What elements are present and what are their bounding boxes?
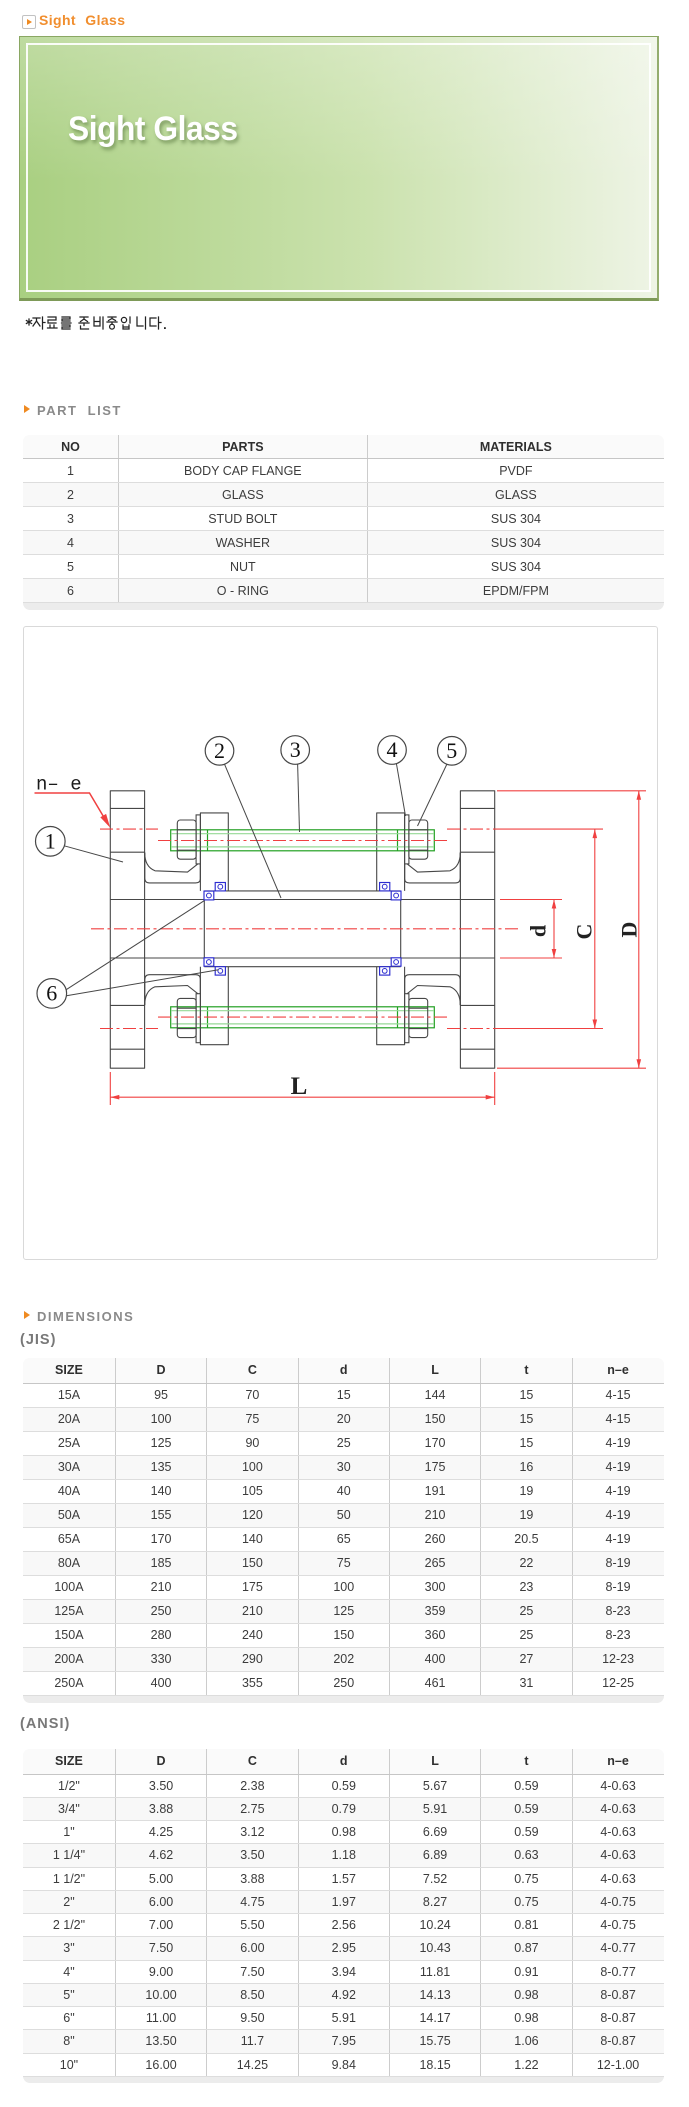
hub recess top-left bbox=[145, 852, 201, 882]
svg-text:6: 6 bbox=[46, 980, 57, 1005]
hub recess top-right bbox=[405, 852, 461, 882]
inner clamp flange bottom-right bbox=[377, 966, 405, 1044]
washer bottom-left bbox=[196, 993, 200, 1042]
nut bottom-left bbox=[177, 998, 196, 1037]
svg-text:3: 3 bbox=[290, 737, 301, 762]
n-e label and arrow bbox=[35, 773, 111, 827]
DIMENSIONS heading bbox=[24, 1311, 30, 1319]
inner clamp flange top-left bbox=[200, 812, 228, 890]
technical drawing box bbox=[23, 626, 658, 1260]
washer 4 top-left bbox=[196, 814, 200, 863]
hangul da bbox=[150, 317, 161, 329]
flange hole center line bottom-right (C extension) bbox=[447, 1027, 502, 1029]
svg-text:d: d bbox=[526, 924, 551, 936]
svg-text:D: D bbox=[617, 921, 642, 937]
balloon 5 bbox=[418, 736, 467, 826]
inner clamp flange bottom-left bbox=[200, 966, 228, 1044]
nut 5 top-right bbox=[409, 820, 428, 859]
washer bottom-right bbox=[405, 993, 409, 1042]
note asterisk bbox=[26, 319, 31, 325]
hangul ip bbox=[121, 317, 130, 329]
hub recess bottom-right bbox=[405, 974, 461, 1004]
hangul ni bbox=[137, 317, 146, 329]
balloon 4 bbox=[378, 735, 407, 815]
hub recess bottom-left bbox=[145, 974, 201, 1004]
o-ring bottom-left-outer bbox=[215, 966, 225, 974]
balloon 3 bbox=[281, 735, 310, 831]
o-ring top-right-inner bbox=[391, 891, 401, 900]
PART LIST table bbox=[23, 435, 664, 610]
main center line bbox=[91, 927, 520, 929]
nut 5 top-left bbox=[177, 820, 196, 859]
hangul jung bbox=[107, 317, 117, 329]
bottom bolt center line bbox=[158, 1016, 450, 1018]
body cap flange right outer plate bbox=[460, 790, 494, 1067]
flange hole center line top-right (C extension) bbox=[447, 828, 502, 830]
PART LIST heading bbox=[24, 405, 30, 413]
green gradient banner bbox=[19, 36, 659, 301]
hangul ryo bbox=[48, 317, 58, 328]
nut bottom-right bbox=[409, 998, 428, 1037]
page header: icon + orange title bbox=[22, 15, 36, 29]
svg-text:5: 5 bbox=[446, 738, 457, 763]
svg-text:2: 2 bbox=[214, 738, 225, 763]
dimension D bbox=[497, 790, 646, 1067]
o-ring bottom-right-outer bbox=[380, 966, 390, 974]
balloon 2 bbox=[205, 736, 281, 898]
top bolt center line bbox=[158, 839, 450, 841]
o-ring top-right-outer bbox=[380, 882, 390, 890]
stud bolt (bottom, green) bbox=[171, 1006, 435, 1027]
washer 4 top-right bbox=[405, 814, 409, 863]
svg-text:4: 4 bbox=[387, 737, 398, 762]
body cap flange 1 (left outer flange plate) bbox=[110, 790, 144, 1067]
dimension L bbox=[110, 1072, 494, 1105]
hangul jun bbox=[79, 317, 89, 329]
svg-text:n– e: n– e bbox=[36, 773, 82, 795]
o-ring 6 top-left-inner bbox=[204, 891, 214, 900]
hangul ja bbox=[33, 317, 45, 329]
glass 2 (sight glass disc) bbox=[204, 890, 400, 966]
stud bolt 3 (top, green) bbox=[171, 829, 435, 850]
ANSI label bbox=[20, 1716, 70, 1732]
balloon 1 bbox=[36, 826, 124, 862]
hangul reul bbox=[62, 317, 72, 329]
JIS table bbox=[23, 1358, 664, 1703]
o-ring 6 top-left-outer bbox=[215, 882, 225, 890]
balloon 6 bbox=[37, 900, 219, 1008]
svg-text:L: L bbox=[291, 1073, 308, 1100]
flange hole center line top-left bbox=[100, 828, 158, 830]
svg-text:C: C bbox=[572, 923, 597, 939]
flange hole center line bottom-left bbox=[100, 1027, 158, 1029]
o-ring bottom-left-inner bbox=[204, 957, 214, 965]
o-ring bottom-right-inner bbox=[391, 957, 401, 965]
bore lines bbox=[110, 899, 494, 958]
svg-text:1: 1 bbox=[45, 828, 56, 853]
inner clamp flange top-right bbox=[377, 812, 405, 890]
note period bbox=[164, 327, 166, 329]
korean note (drawn glyphs) bbox=[24, 314, 184, 334]
dimension C bbox=[572, 829, 598, 1028]
ANSI table bbox=[23, 1749, 664, 2083]
dimension d bbox=[500, 899, 562, 958]
hangul bi bbox=[94, 317, 103, 329]
